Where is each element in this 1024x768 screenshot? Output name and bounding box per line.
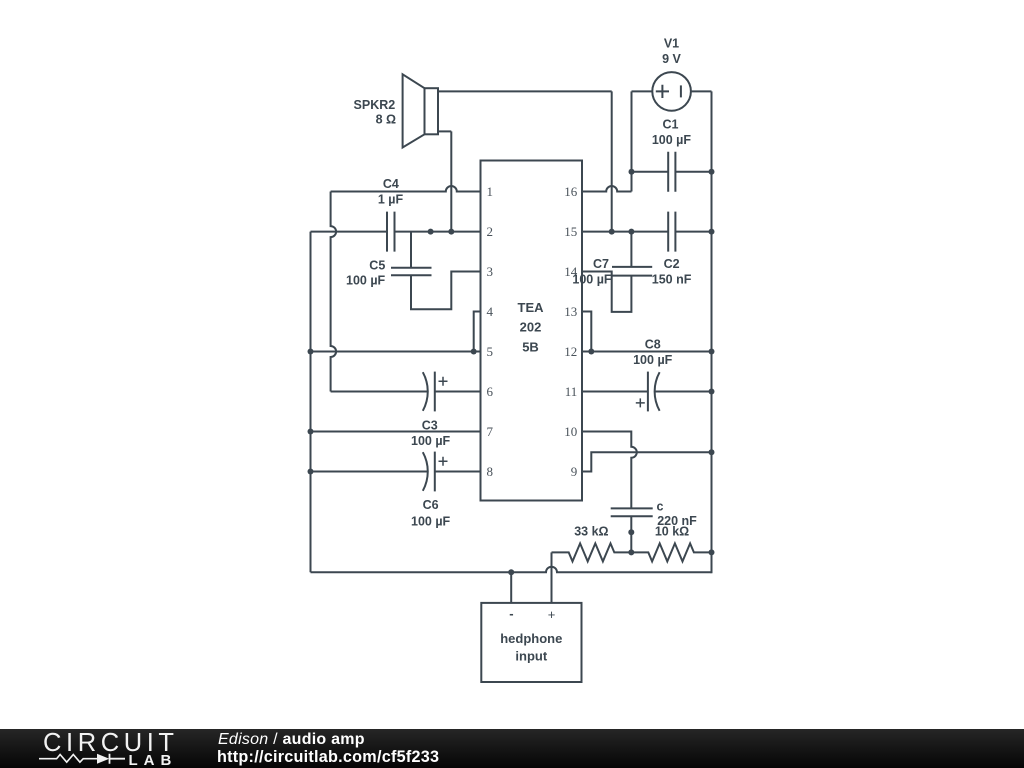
svg-text:C1: C1	[663, 118, 679, 132]
svg-text:9: 9	[571, 464, 578, 479]
CircuitLab logo	[0, 729, 200, 768]
wire battery left lead	[632, 90, 653, 92]
svg-text:C5: C5	[369, 258, 385, 272]
svg-text:16: 16	[564, 184, 578, 199]
wire battery-left vertical	[631, 91, 633, 171]
capacitor C2 plates	[668, 212, 675, 252]
svg-text:202: 202	[520, 320, 542, 335]
svg-text:150 nF: 150 nF	[652, 273, 692, 287]
headphone input box	[481, 603, 581, 682]
wire pin12	[582, 351, 712, 353]
svg-text:33 kΩ: 33 kΩ	[574, 524, 608, 538]
junction dot cap c mid	[628, 529, 634, 535]
wire pin10 route with hop	[582, 432, 637, 509]
wire pin5	[311, 351, 481, 353]
battery V1 minus bar	[680, 85, 682, 97]
svg-text:c: c	[657, 499, 664, 513]
svg-text:1 µF: 1 µF	[378, 192, 404, 206]
svg-text:V1: V1	[664, 37, 679, 51]
wire cap c bottom stub	[630, 516, 632, 552]
speaker SPKR2 frame	[425, 88, 439, 134]
capacitor C6 curved plate	[423, 452, 428, 491]
svg-text:3: 3	[487, 264, 494, 279]
capacitor C8 curved plate	[655, 372, 660, 411]
junction dot pin11 right	[709, 389, 715, 395]
capacitor C3 curved plate	[423, 372, 428, 411]
svg-text:TEA: TEA	[518, 300, 545, 315]
svg-text:15: 15	[564, 224, 577, 239]
svg-text:4: 4	[487, 304, 494, 319]
capacitor C1 plates	[668, 152, 675, 192]
svg-text:11: 11	[565, 384, 578, 399]
wire pin16 with hop	[582, 186, 632, 191]
svg-text:7: 7	[487, 424, 494, 439]
wire speaker bottom lead	[438, 130, 451, 132]
wire vertical speaker-bottom down to pin2	[450, 131, 452, 231]
battery V1 circle	[652, 72, 691, 111]
capacitor c plates	[611, 508, 653, 516]
svg-text:2: 2	[487, 224, 494, 239]
wire pin2 left segment	[311, 231, 388, 233]
svg-text:12: 12	[564, 344, 577, 359]
svg-text:C4: C4	[383, 177, 399, 191]
wire headphone plus lead	[551, 552, 553, 603]
speaker SPKR2 cone	[403, 74, 425, 147]
capacitor C4 plates	[387, 212, 395, 252]
svg-text:C8: C8	[645, 337, 661, 351]
wire pin2 right segment	[395, 231, 481, 233]
svg-text:8: 8	[487, 464, 494, 479]
resistor R 10k	[631, 543, 711, 561]
svg-text:-: -	[509, 606, 513, 621]
svg-text:+: +	[548, 607, 556, 622]
svg-text:6: 6	[487, 384, 494, 399]
junction dot pin5 left	[308, 349, 314, 355]
wire pin13 stub down	[582, 312, 591, 352]
wire pin14 route	[582, 272, 631, 312]
svg-text:C6: C6	[423, 498, 439, 512]
junction dot pin15 a	[609, 229, 615, 235]
svg-text:13: 13	[564, 304, 577, 319]
junction dot C1 right	[709, 169, 715, 175]
svg-text:100 µF: 100 µF	[652, 133, 692, 147]
junction dot pin9 right	[709, 449, 715, 455]
wire battery-left down to pin16 corner	[631, 172, 633, 192]
wire pin8 left	[311, 471, 428, 473]
wire speaker top to node	[438, 90, 612, 92]
junction dot pin8 left	[308, 469, 314, 475]
junction dot C1 left	[629, 169, 635, 175]
junction dot rail	[508, 569, 514, 575]
battery V1 plus sign	[656, 85, 669, 98]
svg-text:C2: C2	[664, 257, 680, 271]
wire pin4 stub down	[474, 312, 481, 352]
capacitor C7 plates	[612, 267, 652, 276]
svg-text:8 Ω: 8 Ω	[376, 113, 396, 127]
wire headphone minus lead	[510, 572, 512, 603]
wire C5 top stub	[410, 232, 412, 268]
wire pin9 route	[582, 452, 712, 471]
junction dot pin15 b	[628, 229, 634, 235]
wire vertical A pin1-to-pin6 with hops	[331, 192, 337, 392]
capacitor C3 plus sign	[439, 377, 448, 386]
wire pin6 right	[435, 391, 481, 393]
svg-text:input: input	[515, 649, 547, 664]
wire battery right lead	[691, 90, 712, 92]
wire right rail corner	[711, 552, 712, 572]
wire vertical B left bus	[310, 232, 312, 573]
capacitor C3 straight plate	[434, 372, 436, 412]
junction dot resistor mid	[628, 549, 634, 555]
svg-text:SPKR2: SPKR2	[354, 98, 396, 112]
wire C1 right	[675, 171, 711, 173]
svg-text:9 V: 9 V	[662, 52, 681, 66]
wire pin7	[311, 431, 481, 433]
svg-text:C7: C7	[593, 257, 609, 271]
svg-text:5: 5	[487, 344, 494, 359]
capacitor C8 straight plate	[647, 372, 649, 412]
junction dot resistor right	[709, 549, 715, 555]
resistor R 33k	[552, 543, 632, 561]
svg-text:hedphone: hedphone	[500, 631, 562, 646]
svg-text:100 µF: 100 µF	[572, 273, 612, 287]
junction dot pin4-pin5	[471, 349, 477, 355]
junction dot pin2 a	[428, 229, 434, 235]
svg-text:100 µF: 100 µF	[411, 514, 451, 528]
junction dot pin13-pin12	[588, 349, 594, 355]
junction dot pin7 left	[308, 429, 314, 435]
wire vertical speaker-top down to pin15	[611, 91, 613, 231]
svg-text:C3: C3	[422, 418, 438, 432]
wire C7 top stub	[630, 232, 632, 267]
wire C1 left	[632, 171, 669, 173]
svg-text:10 kΩ: 10 kΩ	[655, 524, 689, 538]
junction dot pin2 b	[448, 229, 454, 235]
capacitor C6 straight plate	[434, 452, 436, 492]
capacitor C6 plus sign	[439, 457, 448, 466]
svg-text:100 µF: 100 µF	[633, 353, 673, 367]
wire pin11 right	[655, 391, 711, 393]
wire pin8 right	[435, 471, 481, 473]
wire pin15 right segment	[675, 231, 711, 233]
capacitor C8 plus sign	[636, 398, 645, 407]
wire pin1 with hop over speaker line	[331, 186, 481, 191]
junction dot pin12 right	[709, 349, 715, 355]
op-amp U1 IC body	[481, 161, 583, 501]
wire C5 bottom to pin3	[411, 272, 481, 310]
wire pin11 left	[582, 391, 648, 393]
capacitor C5 plates	[391, 268, 432, 276]
junction dot pin15 right	[709, 229, 715, 235]
svg-text:1: 1	[487, 184, 494, 199]
wire pin15 left segment	[582, 231, 668, 233]
svg-text:100 µF: 100 µF	[411, 434, 451, 448]
svg-text:LAB: LAB	[129, 752, 178, 768]
svg-text:100 µF: 100 µF	[346, 274, 386, 288]
svg-text:5B: 5B	[522, 339, 539, 354]
wire right outer vertical	[711, 91, 713, 571]
wire bottom rail with hop	[311, 567, 712, 573]
wire pin6 left	[331, 391, 428, 393]
svg-text:10: 10	[564, 424, 577, 439]
